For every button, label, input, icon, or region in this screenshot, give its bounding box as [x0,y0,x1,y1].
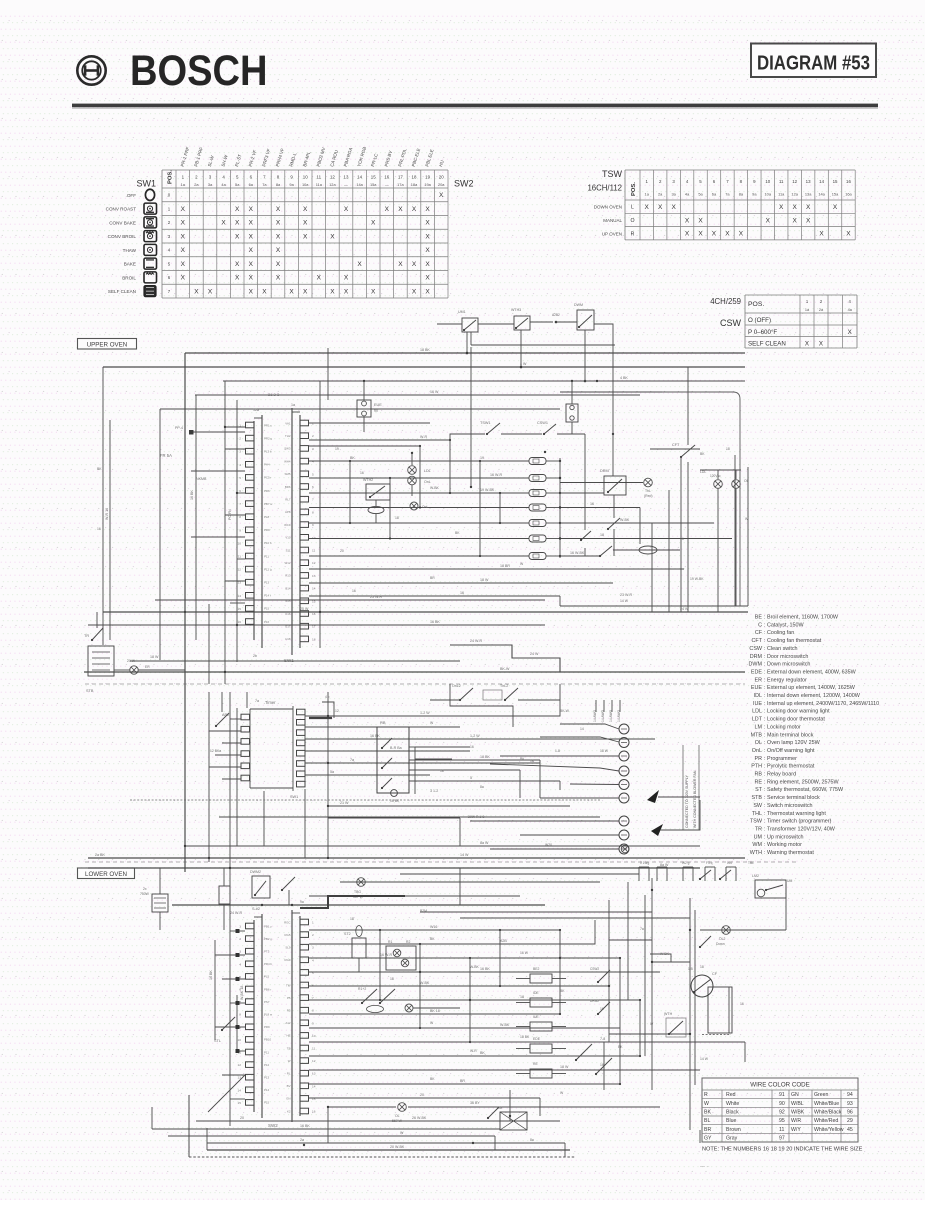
svg-text:8a: 8a [480,785,484,789]
svg-text:PR6: PR6 [264,489,270,493]
svg-text:45: 45 [847,1127,853,1133]
svg-text:: Safety thermostat, 660W, 775: : Safety thermostat, 660W, 775W [764,787,844,793]
svg-text:TBL: TBL [748,861,754,865]
svg-text:R5: R5 [287,1009,291,1013]
svg-text:19a: 19a [424,182,431,187]
svg-text:WTH: WTH [664,1012,673,1016]
svg-text:HE: HE [286,1034,290,1038]
svg-text:A2B: A2B [500,939,507,943]
svg-text:BV: BV [287,1084,291,1088]
svg-text:B14: B14 [285,586,291,590]
svg-text:X: X [425,261,430,268]
svg-text:S11: S11 [286,548,291,552]
svg-text:12: 12 [312,561,316,565]
svg-text:W-BK: W-BK [620,518,630,522]
svg-text:X: X [779,204,784,211]
svg-text:13: 13 [312,574,316,578]
svg-text:: Pyrolytic thermostat: : Pyrolytic thermostat [764,764,815,770]
svg-text:PL5: PL5 [264,975,270,979]
svg-text:W: W [400,1131,404,1135]
svg-text:10: 10 [765,179,770,184]
svg-text:3: 3 [312,946,314,950]
svg-text:X: X [425,288,430,295]
svg-text:BK: BK [455,531,460,535]
svg-text:BROIL: BROIL [122,275,136,280]
svg-text:X: X [344,288,349,295]
svg-text:MANUAL: MANUAL [603,218,622,223]
svg-text:X: X [412,288,417,295]
svg-text:X: X [698,217,703,224]
svg-text:X: X [181,233,186,240]
svg-text:14a: 14a [356,182,363,187]
svg-text:X: X [766,217,771,224]
svg-text:X: X [208,288,213,295]
svg-text:10a: 10a [765,192,772,197]
svg-text:4: 4 [239,962,241,966]
svg-text:15: 15 [238,607,242,611]
svg-text:X: X [645,204,650,211]
svg-text:18: 18 [312,637,316,641]
svg-text:Blue: Blue [726,1118,736,1124]
svg-text:20: 20 [240,1116,244,1120]
svg-text:13: 13 [806,179,811,184]
svg-text:16 BK: 16 BK [300,1124,310,1128]
svg-text:V10: V10 [285,536,291,540]
svg-text:POS.: POS. [748,301,764,308]
svg-text:EUE: EUE [374,403,382,407]
svg-text:X: X [658,204,663,211]
svg-text:SW2: SW2 [454,179,474,189]
svg-text:CONV BAKE: CONV BAKE [109,220,136,225]
svg-text:14 W: 14 W [460,853,469,857]
svg-text:93: 93 [847,1101,853,1107]
svg-text:UP OVEN: UP OVEN [602,231,622,236]
svg-text:X: X [425,247,430,254]
svg-text:X: X [344,275,349,282]
svg-text:16 W-R: 16 W-R [490,473,503,477]
svg-text:15a: 15a [370,182,377,187]
svg-text:6: 6 [312,485,314,489]
svg-text:X: X [805,341,809,348]
svg-text:16 W: 16 W [430,390,439,394]
svg-text:18: 18 [350,917,354,921]
svg-text:Brown: Brown [726,1127,741,1133]
svg-text:CONNECTED TO 120V SUPPLY: CONNECTED TO 120V SUPPLY [685,774,689,828]
svg-text:ER: ER [145,665,150,669]
svg-text:R1: R1 [388,940,392,944]
svg-text:X: X [262,288,267,295]
svg-text:5: 5 [470,776,472,780]
svg-text:R: R [631,231,635,237]
svg-text:96: 96 [847,1110,853,1116]
svg-text:3: 3 [239,450,241,454]
svg-text:14 W: 14 W [700,1057,709,1061]
svg-text:8a: 8a [530,1138,534,1142]
svg-text:SW2: SW2 [268,1123,278,1128]
svg-text:PC5 r: PC5 r [264,476,271,480]
svg-text:10a: 10a [302,182,309,187]
svg-text:CF: CF [712,972,718,976]
svg-text:17: 17 [398,175,403,180]
svg-text:8a W: 8a W [480,841,489,845]
svg-text:X: X [685,217,690,224]
svg-text:17a: 17a [397,182,404,187]
svg-text:BK: BK [480,1051,485,1055]
svg-text:15: 15 [371,175,376,180]
svg-text:TW: TW [286,983,291,987]
svg-text:W2 g: W2 g [682,861,690,865]
svg-text:: Cooling fan: : Cooling fan [764,630,794,636]
svg-text:GN: GN [286,1097,290,1101]
svg-text:BK: BK [430,937,435,941]
svg-text:ER: ER [755,677,763,683]
svg-text:DWM2: DWM2 [250,870,261,874]
svg-text:26 W-BK: 26 W-BK [412,1116,427,1120]
svg-text:14: 14 [819,179,824,184]
svg-text:1-2 W: 1-2 W [420,711,430,715]
svg-text:AP8: AP8 [285,510,291,514]
svg-text:OnL2: OnL2 [452,684,461,688]
svg-text:RB: RB [380,720,386,725]
svg-text:19: 19 [480,456,484,460]
svg-text:W-R: W-R [470,1049,477,1053]
svg-text:CFT: CFT [672,443,680,447]
svg-text:20 W: 20 W [300,607,309,611]
svg-text:X: X [276,206,281,213]
svg-text:F3 q: F3 q [706,861,713,865]
svg-text:16: 16 [352,589,356,593]
svg-text:: Programmer: : Programmer [764,756,797,762]
svg-text:11a: 11a [316,182,323,187]
svg-text:12: 12 [330,175,335,180]
svg-text:LM: LM [755,724,763,730]
svg-text:5: 5 [239,476,241,480]
svg-text:PH4: PH4 [264,463,270,467]
svg-text:16: 16 [460,591,464,595]
svg-text:OnL: OnL [752,748,762,754]
svg-text:16: 16 [740,1002,744,1006]
svg-text:: On/Off warning light: : On/Off warning light [764,748,815,754]
svg-text:95: 95 [779,1118,785,1124]
svg-text:UM: UM [754,834,763,840]
svg-text:A12: A12 [285,1021,291,1025]
svg-text:POS.: POS. [168,170,174,184]
svg-text:OnL: OnL [422,505,429,509]
svg-text:X: X [235,220,240,227]
svg-text:: External down element, 400W,: : External down element, 400W, 635W [764,669,857,675]
svg-text:X: X [194,288,199,295]
svg-text:Green: Green [814,1092,829,1098]
svg-text:TSW1: TSW1 [480,421,491,425]
svg-text:RL: RL [287,1072,291,1076]
svg-text:RL7: RL7 [285,498,291,502]
svg-text:10: 10 [238,541,242,545]
svg-text:—: — [344,182,348,187]
svg-text:X: X [181,247,186,254]
svg-text:16: 16 [97,527,101,531]
svg-text:X: X [276,247,281,254]
svg-text:IDE: IDE [533,991,539,995]
svg-text:BR: BR [430,576,435,580]
svg-text:PL3 b: PL3 b [264,450,272,454]
svg-text:IDL: IDL [754,693,762,699]
svg-text:24 W: 24 W [680,607,689,611]
svg-text:4: 4 [312,460,314,464]
svg-text:X: X [806,217,811,224]
svg-text:SW3: SW3 [284,447,291,451]
svg-text:SM5: SM5 [285,472,291,476]
svg-text:BE2: BE2 [533,967,540,971]
svg-text:OL: OL [755,740,762,746]
svg-text:16 BK: 16 BK [480,967,490,971]
svg-text:4 BK: 4 BK [620,376,628,380]
svg-text:X: X [249,220,254,227]
svg-text:14: 14 [312,1084,316,1088]
svg-text:16: 16 [360,471,364,475]
svg-text:18 BK: 18 BK [480,755,490,759]
svg-text:19: 19 [335,447,339,451]
svg-text:8: 8 [239,1013,241,1017]
svg-text:R2: R2 [406,940,410,944]
svg-text:SELF CLEAN: SELF CLEAN [108,289,136,294]
svg-text:White/Yellow: White/Yellow [814,1127,844,1133]
svg-text:X: X [303,206,308,213]
svg-text:P14 r: P14 r [264,594,271,598]
svg-text:16: 16 [846,179,851,184]
svg-text:CFT: CFT [752,638,763,644]
svg-text:5a: 5a [330,770,334,774]
svg-text:BK: BK [704,1110,711,1116]
svg-text:UM: UM [787,879,792,883]
svg-text:X: X [698,231,703,238]
svg-text:WITH CONNECTED BLOWER FAN: WITH CONNECTED BLOWER FAN [693,770,697,828]
svg-text:15: 15 [833,179,838,184]
svg-text:X: X [330,233,335,240]
svg-text:MTB: MTB [751,732,763,738]
svg-text:12: 12 [335,709,339,713]
svg-text:9a: 9a [300,900,304,904]
svg-text:16: 16 [600,1007,604,1011]
svg-text:R: R [704,1092,708,1098]
svg-text:12a: 12a [329,182,336,187]
svg-text:X: X [235,261,240,268]
svg-text:R1+2: R1+2 [358,987,366,991]
svg-text:AP2: AP2 [222,713,229,717]
svg-text:X: X [235,206,240,213]
svg-text:9: 9 [239,528,241,532]
svg-text:14: 14 [357,175,362,180]
svg-text:BR6: BR6 [285,485,291,489]
svg-text:OL: OL [395,1114,400,1118]
svg-text:18: 18 [700,965,704,969]
svg-text:X: X [848,329,852,336]
svg-text:OFF: OFF [127,193,136,198]
svg-text:BK: BK [430,1077,435,1081]
svg-text:FR 5A: FR 5A [160,453,172,458]
svg-text:TR: TR [84,634,89,638]
svg-text:: Catalyst, 150W: : Catalyst, 150W [764,622,804,628]
svg-text:7: 7 [312,996,314,1000]
svg-text:7: 7 [312,498,314,502]
svg-text:ThL: ThL [645,489,651,493]
svg-text:H18: H18 [285,637,291,641]
svg-text:BAKE: BAKE [124,262,136,267]
svg-text:B-R Ba: B-R Ba [390,746,402,750]
svg-text:18 BK: 18 BK [520,1035,530,1039]
svg-text:: Broil element, 1160W, 1700W: : Broil element, 1160W, 1700W [764,615,839,621]
svg-text:: Locking door warning light: : Locking door warning light [764,709,830,715]
svg-text:4: 4 [239,463,241,467]
svg-text:OL: OL [744,479,749,483]
svg-text:14a: 14a [818,192,825,197]
svg-text:NOTE: THE NUMBERS 16 18 19 20: NOTE: THE NUMBERS 16 18 19 20 INDICATE T… [702,1147,863,1153]
svg-text:X: X [425,233,430,240]
svg-text:RG5: RG5 [285,933,291,937]
svg-text:16 W: 16 W [520,951,529,955]
svg-text:2: 2 [312,434,314,438]
svg-text:PB7 w: PB7 w [264,502,273,506]
svg-text:C: C [288,971,290,975]
svg-text:4 p: 4 p [325,695,330,699]
svg-text:X: X [344,206,349,213]
svg-text:SELF CLEAN: SELF CLEAN [748,340,786,347]
svg-text:15: 15 [238,1101,242,1105]
svg-text:X: X [249,206,254,213]
svg-text:: Internal down element, 1200W: : Internal down element, 1200W, 1400W [764,693,861,699]
svg-text:X: X [425,206,430,213]
svg-text:X: X [235,275,240,282]
svg-text:Red: Red [726,1092,736,1098]
svg-text:5: 5 [312,472,314,476]
svg-text:X: X [276,275,281,282]
svg-text:White: White [726,1101,739,1107]
svg-text:19 W-BK: 19 W-BK [480,488,495,492]
svg-text:12: 12 [238,568,242,572]
svg-text:18: 18 [412,175,417,180]
svg-text:BK-W: BK-W [500,667,510,671]
svg-text:1: 1 [239,925,241,929]
svg-text:16 BK: 16 BK [430,620,440,624]
svg-text:36 BY: 36 BY [470,1101,480,1105]
svg-text:18 W: 18 W [560,1065,569,1069]
svg-text:: Up microswitch: : Up microswitch [764,834,804,840]
svg-text:: Locking motor: : Locking motor [764,724,801,730]
svg-text:SL9: SL9 [285,946,291,950]
svg-text:DWM: DWM [749,662,763,668]
svg-text:12 BKa: 12 BKa [210,749,221,753]
svg-text:TSW: TSW [750,819,763,825]
svg-text:19 W-BK: 19 W-BK [690,577,704,581]
svg-text:12: 12 [312,1059,316,1063]
svg-text:X: X [712,231,717,238]
svg-text:X: X [181,275,186,282]
svg-text:: Warning thermostat: : Warning thermostat [764,850,814,856]
svg-text:7a: 7a [350,758,354,762]
svg-text:14: 14 [238,1088,242,1092]
svg-text:X: X [249,261,254,268]
svg-text:91: 91 [779,1092,785,1098]
svg-text:SW: SW [753,803,763,809]
svg-text:CSW1: CSW1 [537,421,548,425]
svg-text:BK-W: BK-W [560,709,570,713]
svg-text:18a: 18a [411,182,418,187]
svg-text:18 W: 18 W [150,655,159,659]
svg-text:18: 18 [530,759,534,763]
svg-text:WTH3: WTH3 [511,308,521,312]
svg-text:SW1: SW1 [136,179,156,189]
svg-text:9: 9 [312,523,314,527]
svg-text:W/BK: W/BK [791,1110,805,1116]
svg-text:PL8: PL8 [264,515,270,519]
svg-text:20: 20 [420,1093,424,1097]
svg-text:White/Blue: White/Blue [814,1101,839,1107]
svg-text:: Main terminal block: : Main terminal block [764,732,814,738]
svg-text:P12 g: P12 g [264,567,272,571]
svg-text:CSW: CSW [749,646,762,652]
svg-text:POS.: POS. [631,182,637,196]
svg-text:Timer: Timer [265,700,276,705]
svg-text:20a: 20a [438,182,445,187]
svg-text:1-2 W: 1-2 W [470,734,480,738]
svg-text:IUE: IUE [753,701,762,707]
svg-text:7-8: 7-8 [600,1037,605,1041]
svg-text:X: X [398,206,403,213]
svg-text:BK: BK [560,989,565,993]
svg-text:IUE: IUE [533,1015,539,1019]
svg-text:6: 6 [312,984,314,988]
svg-text:: Locking door thermostat: : Locking door thermostat [764,717,825,723]
svg-text:BK: BK [350,456,355,460]
svg-text:X: X [439,192,444,199]
svg-text:X: X [412,261,417,268]
svg-text:PR2 g: PR2 g [264,436,272,440]
svg-text:W-R: W-R [420,435,428,439]
svg-text:X: X [819,341,823,348]
svg-text:P13: P13 [264,1076,270,1080]
svg-text:TH2: TH2 [285,434,291,438]
svg-text:: Cooling fan thermostat: : Cooling fan thermostat [764,638,822,644]
svg-text:X: X [276,220,281,227]
svg-text:11: 11 [779,179,784,184]
svg-text:: Service terminal block: : Service terminal block [764,795,820,801]
svg-text:16 BK: 16 BK [209,970,213,980]
svg-text:120Vac: 120Vac [710,474,721,478]
svg-text:P5: P5 [287,996,291,1000]
svg-text:0 1Wg: 0 1Wg [640,861,649,865]
svg-text:16: 16 [384,175,389,180]
svg-text:WC9: WC9 [284,523,291,527]
svg-text:18 BK: 18 BK [420,348,430,352]
svg-text:X: X [371,288,376,295]
svg-text:X: X [806,204,811,211]
svg-text:: Clean switch: : Clean switch [764,646,798,652]
svg-text:VA1: VA1 [285,421,291,425]
svg-text:X: X [289,288,294,295]
svg-text:2a BK: 2a BK [95,853,105,857]
svg-text:18: 18 [600,533,604,537]
svg-text:18: 18 [390,977,394,981]
svg-text:1 B: 1 B [688,967,693,971]
svg-text:: Timer switch (programmer): : Timer switch (programmer) [764,819,832,825]
svg-text:18 BR: 18 BR [500,564,510,568]
svg-text:X: X [181,206,186,213]
svg-text:BK: BK [700,452,705,456]
svg-text:11: 11 [238,555,241,559]
svg-text:CF: CF [755,630,763,636]
svg-text:16a: 16a [845,192,852,197]
svg-text:10: 10 [238,1038,242,1042]
svg-text:X: X [181,220,186,227]
